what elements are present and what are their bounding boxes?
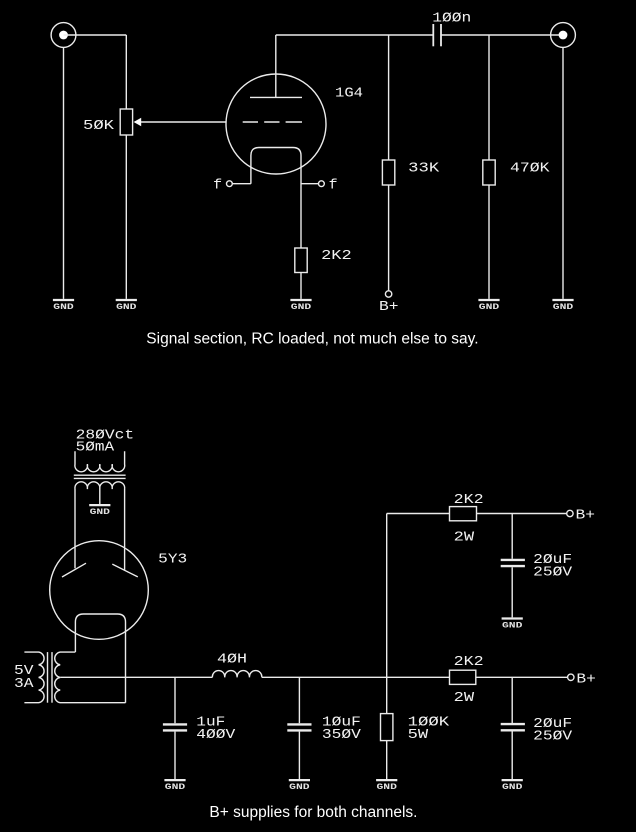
ground GND center tap bbox=[89, 505, 110, 517]
svg-text:B+: B+ bbox=[576, 671, 596, 687]
ground GND output jack bbox=[552, 300, 573, 312]
terminal B+ bottom bbox=[568, 671, 596, 687]
wire filament left to terminal bbox=[232, 183, 251, 185]
plate bbox=[250, 96, 302, 98]
wire bottom 2K2 right to B+ bbox=[476, 676, 568, 678]
resistor 2K2 2W bottom body bbox=[450, 670, 476, 684]
filament terminal f left bbox=[213, 178, 232, 194]
capacitor 20uF top bottom lead bbox=[511, 567, 513, 617]
wiper arrow bbox=[134, 118, 142, 126]
transformer T1 primary winding bbox=[75, 451, 125, 472]
svg-text:25ØV: 25ØV bbox=[533, 565, 573, 581]
wire pot top lead bbox=[125, 35, 127, 109]
wire filament right to terminal bbox=[301, 183, 319, 185]
wire pot bottom lead bbox=[125, 135, 127, 299]
wire 470K bottom lead bbox=[488, 185, 490, 299]
svg-text:35ØV: 35ØV bbox=[322, 727, 362, 743]
svg-text:3A: 3A bbox=[14, 676, 34, 692]
svg-text:4ØH: 4ØH bbox=[217, 652, 247, 668]
svg-text:GND: GND bbox=[377, 783, 398, 792]
node B+ top section bbox=[379, 291, 399, 315]
input jack J1 bbox=[51, 23, 76, 48]
capacitor 1uF bottom lead bbox=[174, 732, 176, 779]
wire output jack stem bbox=[562, 47, 564, 299]
svg-text:25ØV: 25ØV bbox=[533, 729, 573, 745]
svg-text:f: f bbox=[213, 178, 222, 194]
wire wiper to grid bbox=[141, 121, 226, 123]
svg-text:5Y3: 5Y3 bbox=[158, 551, 187, 567]
wire top 2K2 left bbox=[387, 513, 450, 515]
wire 2K2 bottom lead bbox=[300, 273, 302, 299]
triode U1 1G4 envelope bbox=[226, 74, 326, 174]
output jack J2 bbox=[551, 23, 576, 48]
svg-text:B+: B+ bbox=[379, 299, 399, 315]
svg-text:GND: GND bbox=[90, 508, 111, 517]
svg-text:GND: GND bbox=[502, 621, 523, 630]
capacitor 20uF top branch lead bbox=[511, 514, 513, 559]
transformer T1 core bbox=[74, 475, 126, 478]
svg-text:5ØmA: 5ØmA bbox=[76, 439, 115, 455]
capacitor 10uF plates bbox=[287, 724, 311, 730]
capacitor 20uF bottom plates bbox=[501, 724, 525, 730]
resistor 100K body bbox=[381, 714, 393, 741]
svg-text:GND: GND bbox=[479, 303, 500, 312]
ground GND 2K2 bbox=[290, 300, 311, 312]
wire HV left lead to plate bbox=[74, 489, 76, 568]
grid (dashed) bbox=[243, 121, 302, 123]
svg-text:GND: GND bbox=[165, 783, 186, 792]
capacitor 20uF top plates bbox=[501, 560, 525, 566]
svg-text:1ØØn: 1ØØn bbox=[432, 10, 471, 26]
wire B+ rail left bbox=[60, 676, 212, 678]
svg-text:B+: B+ bbox=[576, 508, 596, 524]
svg-text:2K2: 2K2 bbox=[454, 654, 484, 670]
svg-text:f: f bbox=[329, 178, 338, 194]
terminal B+ top bbox=[567, 508, 595, 524]
ground GND 100K bbox=[376, 780, 397, 792]
wire 33K top lead bbox=[388, 35, 390, 160]
rectifier U2 5Y3 envelope bbox=[50, 541, 149, 640]
svg-text:B+ supplies for both channels.: B+ supplies for both channels. bbox=[209, 804, 417, 821]
ground GND 1uF bbox=[164, 780, 185, 792]
ground GND 10uF bbox=[289, 780, 310, 792]
wire B+ rail middle bbox=[262, 676, 450, 678]
svg-text:5ØK: 5ØK bbox=[83, 118, 115, 134]
svg-text:4ØØV: 4ØØV bbox=[196, 727, 236, 743]
ground GND 470K bbox=[478, 300, 499, 312]
svg-text:GND: GND bbox=[291, 303, 312, 312]
right plate bbox=[112, 564, 138, 577]
wire 33K bottom lead bbox=[388, 185, 390, 291]
svg-text:47ØK: 47ØK bbox=[510, 160, 550, 176]
wire cap to output jack bbox=[441, 34, 563, 36]
ground GND 20uF top bbox=[502, 619, 523, 631]
ground GND jack bbox=[53, 300, 74, 312]
capacitor 10uF top lead bbox=[298, 677, 300, 723]
resistor 2K2 body bbox=[295, 248, 307, 273]
left plate bbox=[62, 563, 86, 577]
choke 40H bbox=[212, 671, 261, 678]
capacitor 20uF bottom branch lead bbox=[511, 677, 513, 723]
svg-text:GND: GND bbox=[553, 303, 574, 312]
wire top 2K2 right to B+ bbox=[477, 513, 567, 515]
transformer T2 core bbox=[48, 652, 53, 703]
capacitor 1uF top lead bbox=[174, 677, 176, 723]
filament 5Y3 bbox=[75, 614, 125, 703]
svg-text:GND: GND bbox=[502, 783, 523, 792]
svg-text:1G4: 1G4 bbox=[335, 86, 363, 102]
wire top rail plate to cap bbox=[276, 34, 434, 36]
svg-text:GND: GND bbox=[116, 303, 137, 312]
ground GND pot bbox=[116, 300, 137, 312]
svg-text:33K: 33K bbox=[408, 160, 440, 176]
svg-text:2K2: 2K2 bbox=[454, 492, 484, 508]
wire jack stem bbox=[63, 47, 65, 299]
resistor 33K body bbox=[382, 160, 394, 185]
transformer T2 left winding bbox=[24, 652, 44, 703]
svg-text:2K2: 2K2 bbox=[321, 248, 352, 264]
capacitor 100n bbox=[433, 24, 441, 46]
wire 470K top lead bbox=[488, 35, 490, 160]
wire HV right lead to plate bbox=[124, 489, 126, 570]
ground GND 20uF bottom bbox=[502, 780, 523, 792]
svg-text:Signal section, RC loaded, not: Signal section, RC loaded, not much else… bbox=[146, 331, 478, 348]
wire 100K riser (top 2K2 tap to rail to resistor) bbox=[386, 514, 388, 714]
wire plate lead bbox=[275, 35, 277, 97]
potentiometer 50K body bbox=[120, 109, 132, 135]
svg-text:5W: 5W bbox=[408, 727, 429, 743]
svg-text:GND: GND bbox=[53, 303, 74, 312]
svg-text:GND: GND bbox=[289, 783, 310, 792]
wire center tap bbox=[99, 489, 101, 504]
filament terminal f right bbox=[319, 178, 338, 194]
wire jack to pot top bbox=[64, 34, 127, 36]
resistor 2K2 2W top body bbox=[450, 507, 477, 521]
transformer T1 secondary winding bbox=[75, 482, 125, 489]
svg-text:2W: 2W bbox=[454, 690, 475, 706]
resistor 470K body bbox=[483, 160, 495, 185]
capacitor 10uF bottom lead bbox=[298, 732, 300, 779]
svg-text:2W: 2W bbox=[454, 529, 475, 545]
wire 100K bottom lead bbox=[386, 741, 388, 779]
capacitor 1uF plates bbox=[163, 724, 187, 730]
transformer T2 right winding bbox=[55, 652, 126, 703]
filament cathode bbox=[251, 148, 301, 249]
capacitor 20uF bottom bottom lead bbox=[511, 732, 513, 780]
